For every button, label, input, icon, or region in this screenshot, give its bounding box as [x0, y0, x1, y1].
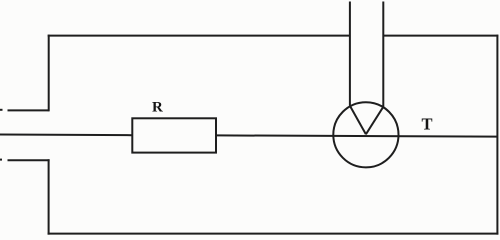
resistor R — [132, 118, 216, 152]
wire: upper terminal stub — [8, 109, 49, 111]
terminal tick upper-left — [0, 109, 3, 111]
svg-text:R: R — [152, 100, 163, 116]
plug wire right vertical — [382, 2, 384, 107]
wire: middle horizontal, left of resistor — [0, 134, 132, 137]
wire: bottom horizontal — [48, 233, 499, 235]
plug wire left vertical — [349, 2, 351, 106]
V junction right leg — [366, 107, 383, 135]
wire: upper-left vertical — [48, 35, 50, 112]
wire: middle horizontal, resistor to right vertical — [216, 135, 497, 136]
svg-text:T: T — [422, 115, 433, 134]
wire: lower-left vertical — [48, 159, 50, 234]
thermocouple circle T — [333, 102, 398, 167]
wire: lower terminal stub — [8, 159, 50, 161]
terminal tick lower-left — [0, 159, 2, 161]
V junction left leg — [350, 106, 366, 135]
wire: top horizontal right section — [383, 35, 498, 37]
wire: top horizontal left section — [48, 35, 350, 37]
wire: right vertical — [496, 35, 498, 235]
